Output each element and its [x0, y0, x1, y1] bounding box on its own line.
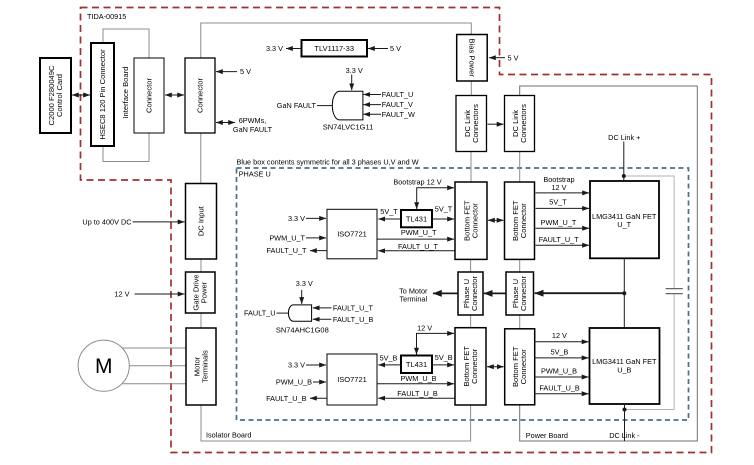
block Bias Power: [457, 35, 488, 82]
svg-text:3.3 V: 3.3 V: [296, 279, 313, 288]
label Interface Board: [121, 67, 130, 119]
svg-text:ISO7721: ISO7721: [337, 375, 367, 384]
wire motor phase a: [122, 347, 186, 349]
wire bracket HSEC8 bottom to Connector: [103, 133, 149, 162]
block Gate Drive Power: [186, 272, 216, 313]
node DC link minus junction: [623, 408, 627, 412]
block DC Input: [186, 184, 217, 260]
wire C2000 to HSEC8: [72, 94, 90, 96]
wire FAULT_U_B into gate: [313, 318, 332, 320]
svg-text:5V_T: 5V_T: [380, 207, 398, 216]
wire 12V into LMG bottom: [536, 341, 589, 343]
svg-text:5V_B: 5V_B: [551, 347, 569, 356]
svg-text:Blue box contents symmetric fo: Blue box contents symmetric for all 3 ph…: [237, 157, 419, 166]
wire Motor Terminals to isolator board edge: [201, 405, 471, 441]
wire FET connector left to right: [488, 219, 504, 221]
wire DC link left to right: [488, 123, 504, 125]
svg-text:ISO7721: ISO7721: [337, 230, 367, 239]
wire TL431 5V_T to ISO: [378, 218, 400, 220]
svg-text:FAULT_U_T: FAULT_U_T: [539, 235, 580, 244]
wire DC Link plus into LMG top: [623, 142, 625, 182]
svg-text:Control Card: Control Card: [55, 74, 64, 117]
svg-text:PHASE U: PHASE U: [239, 170, 271, 179]
svg-text:3.3 V: 3.3 V: [346, 66, 363, 75]
block Bottom FET Connector top left: [455, 182, 487, 259]
wire capacitor to DC link minus: [625, 294, 675, 410]
wire Up to 400V DC into DC Input: [133, 221, 185, 223]
block C2000 F280049C Control Card: [40, 58, 71, 133]
svg-text:FAULT_V: FAULT_V: [382, 100, 413, 109]
svg-text:5V_B: 5V_B: [435, 353, 453, 362]
block TLV1117-33: [302, 40, 368, 57]
block Phase U Connector right: [506, 272, 534, 315]
block DC Link Connectors left: [456, 96, 487, 152]
wire 12V into Gate Drive Power: [135, 293, 185, 295]
svg-text:5V_B: 5V_B: [380, 353, 398, 362]
svg-text:5 V: 5 V: [390, 44, 401, 53]
wire PWM_U_B into LMG bottom: [536, 376, 589, 378]
svg-text:Bootstrap 12 V: Bootstrap 12 V: [393, 178, 441, 187]
wire TLV output 3.3V: [286, 48, 301, 50]
wire LMG U_B to DC link minus: [624, 404, 626, 441]
svg-text:Interface Board: Interface Board: [121, 67, 130, 119]
wire 3.3V into ISO bottom: [306, 364, 326, 366]
svg-text:FAULT_U_B: FAULT_U_B: [266, 394, 307, 403]
wire FAULT_U_T FET connector to ISO: [378, 250, 455, 252]
wire bracket HSEC8 top to Connector: [103, 29, 149, 58]
svg-text:M: M: [95, 355, 113, 378]
wire Bias Power to DC Link Connectors: [470, 81, 472, 96]
block LMG3411 GaN FET U_T: [590, 181, 659, 258]
wire FAULT_U_B FET connector to ISO: [378, 397, 455, 399]
block Connector isolator board: [185, 58, 215, 133]
wire FAULT_U_T out of ISO top: [310, 250, 327, 252]
wire 3.3V into AND gate U4: [301, 290, 303, 304]
wire 5V into Connector: [216, 71, 237, 73]
svg-text:GaN FAULT: GaN FAULT: [233, 125, 273, 134]
svg-text:12 V: 12 V: [552, 331, 567, 340]
svg-text:Connector: Connector: [519, 203, 528, 239]
wire motor phase c: [122, 383, 186, 385]
wire Bootstrap 12V into LMG top: [536, 192, 590, 194]
block Motor Terminals: [186, 328, 216, 405]
wire Connector to Bias Power: [201, 23, 472, 58]
wire Phase U Connector right to left: [484, 292, 506, 294]
svg-text:TLV1117-33: TLV1117-33: [314, 44, 354, 53]
wire Bottom FET to Phase U Connector left: [470, 259, 472, 272]
svg-text:PWM_U_T: PWM_U_T: [541, 218, 577, 227]
svg-text:Up to 400V DC: Up to 400V DC: [82, 218, 131, 227]
wire 5V_T into LMG top: [536, 207, 590, 209]
block LMG3411 GaN FET U_B: [590, 328, 660, 404]
svg-text:3.3 V: 3.3 V: [288, 214, 305, 223]
svg-text:FAULT_W: FAULT_W: [382, 110, 415, 119]
wire TL431 5V_B to ISO: [378, 364, 400, 366]
block HSEC8 120 Pin Connector: [91, 43, 114, 146]
block Bottom FET Connector top right: [505, 182, 535, 259]
wire FAULT_U into gate: [363, 94, 381, 96]
wire PWM_U_T ISO to FET connector: [378, 238, 455, 240]
wire FAULT_V into gate: [363, 104, 381, 106]
svg-text:5 V: 5 V: [240, 67, 251, 76]
wire 12V to TL431 and FET connector: [417, 333, 455, 354]
svg-text:FAULT_U_T: FAULT_U_T: [333, 304, 374, 313]
svg-text:Connector: Connector: [470, 276, 479, 312]
wire TL431 5V_T to FET connector: [433, 218, 455, 220]
wire Phase U Connector to bottom FET right: [519, 315, 521, 329]
wire motor junction to Phase U Connector right: [535, 292, 625, 294]
svg-text:12 V: 12 V: [551, 183, 566, 192]
block Connector interface board: [134, 58, 164, 133]
svg-text:FAULT_U_T: FAULT_U_T: [398, 242, 439, 251]
svg-text:FAULT_U_B: FAULT_U_B: [333, 315, 374, 324]
svg-text:PWM_U_B: PWM_U_B: [276, 378, 312, 387]
svg-text:PWM_U_T: PWM_U_T: [401, 228, 437, 237]
svg-text:Terminals: Terminals: [201, 350, 210, 383]
svg-text:FAULT_U: FAULT_U: [382, 90, 414, 99]
svg-text:Connector: Connector: [470, 348, 479, 384]
svg-text:U_T: U_T: [617, 220, 631, 229]
wire DC Link Connectors to Bottom FET Connector top right: [519, 152, 521, 183]
svg-text:12 V: 12 V: [417, 323, 432, 332]
wire FET connector bottom left to right: [487, 366, 504, 368]
wire DC link plus to capacitor: [624, 176, 674, 289]
svg-text:5V_T: 5V_T: [549, 198, 567, 207]
capacitor C1: [666, 289, 683, 294]
wire TL431 5V_B to FET connector: [433, 364, 455, 366]
gate SN74LVC1G11 U3: [332, 91, 363, 120]
block Bottom FET Connector bottom right: [505, 329, 535, 405]
wire 5V into Bias Power: [489, 57, 505, 59]
svg-text:Terminal: Terminal: [400, 294, 428, 303]
svg-text:FAULT_U: FAULT_U: [244, 309, 276, 318]
wire FAULT_U_T into LMG top: [536, 244, 590, 246]
svg-text:TL431: TL431: [406, 214, 427, 223]
svg-text:FAULT_U_B: FAULT_U_B: [539, 383, 580, 392]
svg-text:Connectors: Connectors: [519, 104, 528, 143]
svg-text:3.3 V: 3.3 V: [288, 361, 305, 370]
svg-text:PWM_U_B: PWM_U_B: [400, 374, 436, 383]
wire PWM_U_B into ISO bottom: [313, 381, 326, 383]
wire 3.3V into ISO top: [306, 217, 326, 219]
svg-text:GaN FAULT: GaN FAULT: [277, 101, 317, 110]
wire motor phase b: [129, 365, 186, 367]
wire Connector to Connector: [165, 94, 184, 96]
wire 3.3V into AND gate U3: [351, 75, 353, 91]
blue dashed PHASE U boundary: [237, 168, 689, 420]
wire Bootstrap 12V to TL431 and FET connector: [417, 188, 454, 209]
wire LMG U_T to motor junction to LMG U_B: [623, 258, 625, 328]
svg-text:TL431: TL431: [406, 360, 427, 369]
wire FAULT_U_T into gate: [313, 307, 332, 309]
block ISO7721 top: [327, 209, 377, 258]
svg-text:Connector: Connector: [471, 203, 480, 239]
wire PWM_U_B ISO to FET connector: [378, 383, 455, 385]
wire Phase U Connector to bottom FET left: [470, 315, 472, 328]
svg-text:TIDA-00915: TIDA-00915: [87, 12, 126, 21]
block TL431 bottom: [401, 356, 432, 374]
svg-text:Connector: Connector: [196, 78, 205, 114]
wire 5V_B into LMG bottom: [536, 357, 589, 359]
wire GaN FAULT output: [317, 105, 332, 107]
svg-text:SN74AHC1G08: SN74AHC1G08: [276, 325, 329, 334]
svg-text:PWM_U_B: PWM_U_B: [541, 367, 577, 376]
wire Gate Drive Power to Motor Terminals: [200, 313, 202, 328]
block TL431 top: [401, 210, 432, 227]
svg-text:6PWMs,: 6PWMs,: [239, 116, 267, 125]
gate SN74AHC1G08 U4: [288, 305, 311, 321]
svg-text:Connector: Connector: [519, 276, 528, 312]
wire PWM_U_T into LMG top: [536, 227, 590, 229]
block ISO7721 bottom: [327, 354, 377, 405]
svg-text:Isolator Board: Isolator Board: [206, 430, 251, 439]
svg-text:5 V: 5 V: [508, 53, 519, 62]
block Bottom FET Connector bottom left: [455, 328, 486, 405]
block DC Link Connectors right: [505, 96, 535, 152]
svg-text:DC Input: DC Input: [197, 205, 206, 236]
svg-text:DC Link +: DC Link +: [608, 133, 640, 142]
svg-text:12 V: 12 V: [114, 290, 129, 299]
svg-text:Connectors: Connectors: [471, 104, 480, 143]
svg-text:Bias Power: Bias Power: [468, 38, 477, 77]
svg-text:3.3 V: 3.3 V: [266, 44, 283, 53]
motor M: [78, 340, 129, 391]
svg-text:FAULT_U_B: FAULT_U_B: [397, 389, 438, 398]
svg-text:DC Link -: DC Link -: [609, 431, 640, 440]
node DC link plus junction: [622, 174, 626, 178]
svg-text:SN74LVC1G11: SN74LVC1G11: [323, 123, 374, 132]
svg-text:HSEC8 120 Pin Connector: HSEC8 120 Pin Connector: [98, 49, 107, 140]
wire Bottom FET to Phase U Connector right: [519, 259, 521, 272]
wire FAULT_W into gate: [363, 113, 381, 115]
wire Phase U Connector to motor terminal: [433, 292, 458, 294]
svg-text:Power Board: Power Board: [526, 431, 568, 440]
wire Connector to DC Input: [200, 133, 202, 184]
wire PWM_U_T into ISO top: [306, 237, 326, 239]
wire FAULT_U output: [277, 312, 289, 314]
wire 6PWMs GaN FAULT: [216, 122, 235, 124]
wire FAULT_U_B out of ISO bottom: [310, 397, 327, 399]
wire DC Link Connectors to Bottom FET Connector top left: [470, 152, 472, 183]
wire DC link bus loop: [520, 86, 698, 441]
svg-text:PWM_U_T: PWM_U_T: [269, 233, 305, 242]
wire DC Input to Gate Drive Power: [200, 259, 202, 272]
block Phase U Connector left: [458, 272, 483, 315]
svg-text:Power: Power: [200, 281, 209, 303]
svg-text:FAULT_U_T: FAULT_U_T: [266, 246, 307, 255]
svg-text:5V_T: 5V_T: [435, 205, 453, 214]
svg-text:Connector: Connector: [519, 349, 528, 385]
wire 5V into TLV: [368, 48, 388, 50]
svg-text:U_B: U_B: [617, 365, 631, 374]
svg-text:Connector: Connector: [145, 78, 154, 114]
node motor phase junction: [622, 291, 626, 295]
wire FAULT_U_B into LMG bottom: [536, 393, 589, 395]
